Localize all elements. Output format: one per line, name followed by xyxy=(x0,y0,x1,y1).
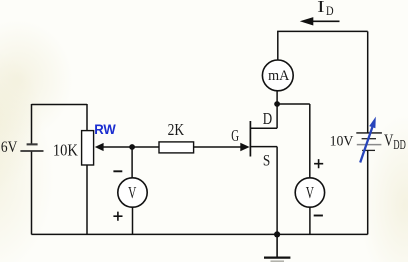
wire pot branch lower xyxy=(86,165,88,234)
potentiometer RW body 10K xyxy=(82,131,94,165)
transistor V drain lead horizontal xyxy=(250,127,277,129)
battery B2 VDD plate1 long xyxy=(356,132,382,134)
wire right vertical upper xyxy=(367,31,369,132)
svg-text:D: D xyxy=(326,3,334,18)
label plus right xyxy=(314,159,323,168)
svg-text:10K: 10K xyxy=(53,140,79,159)
wire drain junction to right voltmeter xyxy=(277,103,310,105)
svg-text:2K: 2K xyxy=(168,120,185,139)
ammeter mA xyxy=(262,60,293,91)
label plus left xyxy=(113,212,122,221)
battery B1 6V short plate xyxy=(27,143,38,145)
variable arrow blue through battery xyxy=(360,127,372,163)
battery B2 VDD plate2 short xyxy=(362,138,376,140)
svg-text:DD: DD xyxy=(393,137,406,152)
svg-text:RW: RW xyxy=(94,121,116,137)
battery B2 VDD plate4 short xyxy=(362,149,375,151)
wire bottom horizontal xyxy=(31,233,367,235)
svg-text:S: S xyxy=(263,153,270,170)
svg-text:mA: mA xyxy=(268,68,289,84)
wire right voltmeter to bottom xyxy=(309,207,311,234)
node wiper junction xyxy=(129,144,135,150)
voltmeter V1 left xyxy=(118,178,147,207)
svg-text:V: V xyxy=(306,183,315,202)
battery B2 VDD plate3 long grey xyxy=(357,144,382,146)
current arrow ID xyxy=(312,20,340,22)
svg-text:10V: 10V xyxy=(330,133,354,149)
wire wiper junction to resistor xyxy=(132,146,159,148)
wire resistor to gate xyxy=(194,146,241,148)
svg-text:V: V xyxy=(128,183,137,202)
potentiometer wiper arrow xyxy=(95,143,104,151)
wire wiper junction down to left voltmeter xyxy=(131,147,133,178)
wire left voltmeter to bottom xyxy=(132,207,134,234)
svg-text:I: I xyxy=(317,0,325,16)
ground xyxy=(276,234,278,257)
wire top of left loop xyxy=(32,104,88,106)
resistor R 2K body xyxy=(159,142,194,153)
voltmeter V2 right xyxy=(295,178,324,207)
wire ammeter to top xyxy=(277,31,279,60)
node drain junction xyxy=(274,101,280,107)
label minus left xyxy=(113,170,122,172)
svg-text:D: D xyxy=(263,109,272,128)
transistor V gate arrowhead xyxy=(240,143,249,152)
svg-text:G: G xyxy=(231,126,239,145)
svg-text:6V: 6V xyxy=(1,139,18,156)
node ground junction xyxy=(274,231,280,237)
transistor V channel bar xyxy=(249,121,251,157)
wire source vertical xyxy=(276,147,278,235)
wire left vertical upper xyxy=(31,104,33,144)
wire right vertical lower xyxy=(367,150,369,234)
wire top horizontal xyxy=(277,30,368,32)
transistor V source lead horizontal xyxy=(250,146,277,148)
wire wiper lead xyxy=(103,146,132,148)
wire left vertical lower xyxy=(31,152,33,235)
label minus right xyxy=(314,215,323,217)
svg-text:V: V xyxy=(384,130,393,149)
battery B1 6V long plate xyxy=(20,150,43,152)
wire drain vertical xyxy=(276,104,278,128)
wire drain junction to ammeter xyxy=(276,91,278,104)
wire pot branch upper xyxy=(86,104,88,131)
